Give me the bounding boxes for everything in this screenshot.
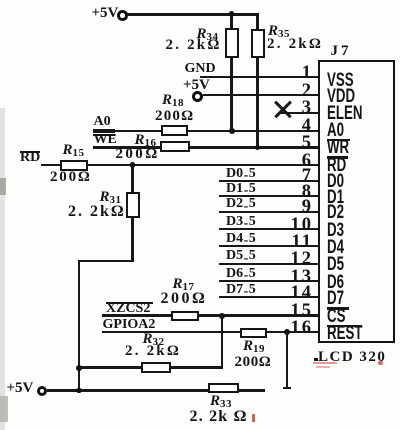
junction XZCS2/pin15 [219, 313, 225, 319]
pin label WR with overbar [327, 139, 350, 141]
wire R34 column lower [230, 56, 232, 132]
pin number 3 [283, 99, 313, 118]
resistor R19 [240, 328, 267, 338]
resistor R31 [126, 192, 140, 219]
resistor R16 [135, 132, 157, 149]
wire pin4 A0 [93, 129, 115, 132]
wire pin6 RD [41, 164, 319, 166]
junction +5V/left vertical [76, 388, 82, 394]
connector J7 box [318, 60, 395, 344]
wire pin9 D2 [219, 211, 319, 213]
resistor R17 [173, 276, 195, 293]
pin label ELEN [327, 104, 362, 123]
junction pin16/REST vertical [284, 329, 290, 335]
pin label D2 [327, 203, 344, 222]
junction R34 top [229, 11, 235, 17]
resistor R34 [225, 28, 239, 58]
scan edge shading left [0, 108, 5, 430]
resistor R18 [162, 92, 184, 109]
node GPIOA2 [103, 317, 156, 333]
pin number 2 [283, 82, 313, 101]
pin number 15 [283, 302, 313, 321]
pin number 13 [283, 268, 313, 287]
wire pin3 ELEN stub [281, 112, 319, 114]
wire pin2 VDD [203, 94, 320, 96]
pin label D7 [327, 289, 344, 308]
junction RD/R31 [130, 162, 136, 168]
wire pin14 D7 [219, 296, 319, 298]
pin number 7 [283, 167, 313, 186]
wire pin15 CS [102, 314, 319, 316]
resistor R33 [208, 383, 239, 393]
node D6_5 [226, 266, 256, 282]
+5V terminal mid [183, 77, 210, 94]
wire R35 corner drop [256, 14, 258, 30]
node D7_5 [226, 282, 256, 298]
junction R35/WR [255, 145, 261, 151]
pin label A0 [327, 121, 344, 140]
node D2_5 [226, 196, 256, 212]
wire pin10 D3 [219, 228, 319, 230]
node D1_5 [226, 181, 256, 197]
junction R32/left vertical [76, 365, 82, 371]
pin number 12 [283, 250, 313, 269]
label LCD 320 [318, 349, 386, 366]
pin number 11 [283, 233, 313, 252]
wire pin16 REST [102, 331, 319, 333]
wire REST vertical [286, 333, 288, 390]
wire R31 column upper [131, 165, 133, 193]
resistor R35 [251, 29, 265, 58]
pin label VDD [327, 87, 355, 106]
pin number 9 [283, 198, 313, 217]
label J7 [331, 43, 352, 60]
wire XZCS2 vertical [221, 316, 223, 368]
pin label REST with overbar [327, 325, 362, 327]
node GND [185, 61, 216, 77]
pin label D4 [327, 238, 344, 257]
wire pin7 D0 [219, 180, 319, 182]
wire REST vertical foot [283, 387, 291, 389]
wire pin11 D4 [219, 245, 319, 247]
node XZCS2 [106, 302, 153, 304]
no-connect X on pin3 [274, 100, 291, 117]
wire R35 column lower [256, 56, 258, 149]
junction R34/A0 [229, 128, 235, 134]
wire pin5 WR [93, 146, 115, 149]
wire R34 column upper [230, 14, 232, 29]
resistor R32 [143, 331, 165, 348]
node D4_5 [226, 231, 256, 247]
node A0 [94, 114, 111, 130]
pin number 5 [283, 134, 313, 153]
+5V terminal top [92, 5, 119, 22]
wire R31 column lower [131, 217, 133, 262]
pin label RD with overbar [327, 156, 348, 158]
pin number 14 [283, 284, 313, 303]
pin number 1 [283, 64, 313, 83]
wire R32 line [79, 366, 223, 368]
pin label D0 [327, 172, 344, 191]
wire pin13 D6 [219, 280, 319, 282]
red scan artifacts [313, 362, 337, 365]
+5V terminal bottom [7, 380, 34, 397]
wire +5V top horizontal [127, 13, 259, 16]
wire pin8 D1 [219, 195, 319, 197]
wire pin1 VSS [200, 76, 319, 78]
pin label CS with overbar [327, 307, 349, 309]
pin number 6 [283, 152, 313, 171]
node RD [20, 151, 40, 153]
node D5_5 [226, 248, 256, 264]
node D0_5 [226, 166, 256, 182]
pin label D6 [327, 273, 344, 292]
resistor R15 [63, 142, 85, 159]
pin number 16 [283, 319, 313, 338]
node WE [93, 134, 115, 136]
pin label D1 [327, 188, 344, 207]
wire left long vertical [78, 260, 80, 392]
pin number 4 [283, 117, 313, 136]
node D3_5 [226, 214, 256, 230]
pin label VSS [327, 71, 354, 90]
pin number 10 [283, 216, 313, 235]
wire R31 to left vertical [78, 260, 134, 262]
pin label D5 [327, 255, 344, 274]
pin number 8 [283, 183, 313, 202]
wire +5V bottom horizontal [47, 389, 266, 391]
wire pin12 D5 [219, 263, 319, 265]
pin label D3 [327, 221, 344, 240]
